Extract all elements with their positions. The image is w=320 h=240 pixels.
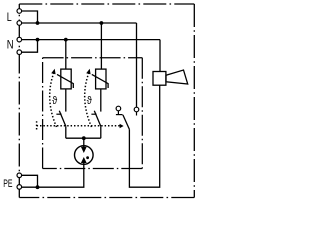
spark gap gas-filled dot	[86, 156, 89, 159]
gas discharge tube (spark gap) body	[75, 146, 94, 165]
wire: N drop to varistor V1	[65, 40, 67, 70]
buzzer body	[153, 72, 166, 86]
thermal disconnector switch F1 blade	[59, 111, 66, 127]
thermal trip arc F2 arrowhead	[86, 69, 90, 75]
node: merge junction	[82, 136, 86, 140]
node: N tap to varistor V1	[64, 38, 68, 42]
terminal N lower	[17, 50, 22, 55]
thermal disconnector switch F2 blade	[94, 111, 101, 127]
wire: PE jumper from upper terminal	[22, 175, 38, 187]
wire: signal common down and to buzzer	[129, 85, 159, 187]
wire: L drop to signal contact right	[136, 23, 138, 107]
svg-text:ϑ: ϑ	[52, 95, 57, 107]
wire: F2 lower lead	[100, 126, 102, 138]
wire: N jumper from lower terminal	[22, 40, 38, 53]
linkage arrowhead at signal switch	[120, 124, 124, 128]
outer enclosure boundary dash-dot frame	[19, 4, 194, 198]
mechanical linkage dotted line	[37, 125, 123, 127]
wire: F1 lower lead	[65, 126, 67, 138]
wire: L bus	[22, 22, 137, 24]
varistor V1 body	[61, 69, 71, 89]
node: N jumper junction	[36, 38, 40, 42]
svg-text:L: L	[7, 12, 12, 24]
thermal trip arc F1 (dotted)	[50, 74, 57, 128]
varistor V2 diagonal	[92, 74, 108, 88]
thermal disconnector switch F2 tick	[91, 113, 96, 115]
inner SPD module dash-dot box	[43, 58, 143, 169]
wire: merge bar of V1/V2 branches	[66, 137, 101, 139]
wire: L jumper from upper terminal	[22, 11, 38, 23]
signal contact left fixed circle	[116, 106, 121, 111]
signal contact tick	[116, 114, 123, 116]
linkage left end bar (dotted)	[36, 121, 38, 130]
varistor V2 body	[96, 69, 106, 89]
node: L tap to varistor V2	[100, 21, 104, 25]
svg-text:N: N	[7, 39, 14, 52]
terminal L upper	[17, 9, 22, 14]
terminal N upper	[17, 37, 22, 42]
terminal PE upper	[17, 173, 22, 178]
signal switch blade	[123, 115, 129, 129]
spark gap upper arrow	[83, 146, 85, 148]
terminal L lower	[17, 21, 22, 26]
thermal trip arc F1 arrowhead	[51, 69, 55, 75]
thermal disconnector switch F1 tick	[56, 113, 61, 115]
wire: N bus	[22, 39, 161, 41]
wire: lead to gas discharge tube	[83, 138, 85, 147]
spark gap lower arrow	[81, 157, 87, 163]
node: L jumper junction	[36, 21, 40, 25]
wire: spark gap lower lead to PE bus	[22, 164, 84, 187]
wire: V2 lower lead	[100, 89, 102, 112]
thermal trip arc F2 (dotted)	[85, 74, 92, 128]
wire: N drop to buzzer	[159, 40, 161, 72]
signal contact right fixed circle	[134, 107, 139, 112]
node: PE jumper junction	[36, 185, 40, 189]
svg-text:ϑ: ϑ	[87, 95, 92, 107]
wire: V1 lower lead	[65, 89, 67, 112]
buzzer horn	[166, 70, 188, 84]
terminal PE lower	[17, 185, 22, 190]
svg-text:PE: PE	[3, 177, 12, 189]
varistor V1 diagonal	[57, 74, 73, 88]
wire: left contact stub	[117, 111, 119, 114]
wire: L drop to varistor V2	[100, 23, 102, 69]
wire: right contact stub	[136, 112, 138, 116]
